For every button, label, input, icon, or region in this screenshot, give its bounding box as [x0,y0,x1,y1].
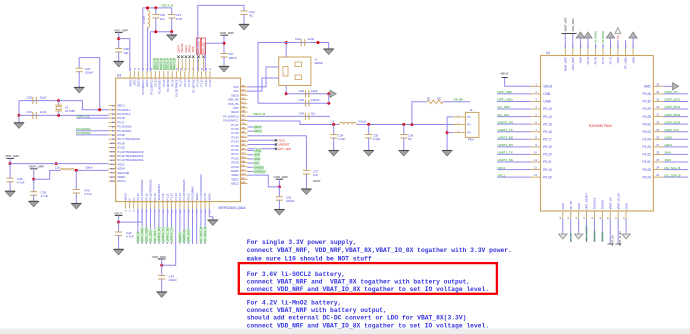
svg-text:NRF_RST: NRF_RST [186,228,190,242]
svg-text:26: 26 [656,151,659,155]
svg-text:13: 13 [534,173,537,177]
svg-text:VDD_NRF: VDD_NRF [274,175,289,179]
svg-text:VBAT_IO_8X: VBAT_IO_8X [619,231,622,246]
svg-text:NC: NC [249,14,254,18]
svg-text:VBUS: VBUS [114,211,122,215]
svg-text:GND: GND [624,203,628,209]
svg-text:19: 19 [600,216,602,219]
svg-text:NRF_RESET: NRF_RESET [585,225,589,241]
svg-text:6: 6 [535,120,537,124]
svg-text:P2: P2 [467,123,471,127]
svg-text:31: 31 [656,113,659,117]
svg-text:QSPI_DIO3: QSPI_DIO3 [665,120,681,124]
svg-text:PEX: PEX [468,138,474,142]
svg-text:P0.04: P0.04 [586,57,590,65]
svg-text:J3: J3 [134,209,136,212]
svg-text:I2C_SCL: I2C_SCL [498,113,511,117]
svg-text:DEC4_B: DEC4_B [162,4,174,8]
svg-text:RF_BP: RF_BP [454,97,464,101]
svg-text:P1.24: P1.24 [642,145,651,149]
svg-text:27: 27 [656,143,659,147]
svg-text:VBAT_IO_8X: VBAT_IO_8X [616,193,620,210]
svg-text:VBUS: VBUS [543,85,552,89]
svg-text:32.768K: 32.768K [65,109,75,113]
svg-text:1.0pF: 1.0pF [373,137,381,141]
svg-text:VBAT_NRF: VBAT_NRF [29,165,45,169]
svg-text:NFC2: NFC2 [254,129,262,133]
svg-text:P0.11: P0.11 [601,57,605,65]
svg-text:5: 5 [535,113,537,117]
svg-text:NRF52840-QIAA: NRF52840-QIAA [219,206,247,210]
svg-text:P3: P3 [467,131,471,135]
svg-text:SW1: SW1 [665,158,672,162]
svg-text:GND: GND [577,203,581,209]
svg-text:NC: NC [311,111,316,115]
svg-text:P0.04(NE): P0.04(NE) [594,31,598,43]
svg-text:SWDIO: SWDIO [600,232,604,241]
svg-text:USB+: USB+ [543,100,552,104]
svg-text:15: 15 [568,216,570,219]
svg-text:DEC3B: DEC3B [180,43,184,52]
svg-text:17: 17 [584,216,586,219]
svg-text:GND: GND [561,203,565,209]
svg-text:RF_1aRa: RF_1aRa [624,57,628,69]
svg-text:P0.10: P0.10 [543,168,552,172]
svg-text:VDD_NRF: VDD_NRF [571,18,575,32]
svg-text:33: 33 [656,98,659,102]
svg-text:connect VDD_NRF and VBAT_IO_8X: connect VDD_NRF and VBAT_IO_8X togather … [247,286,489,293]
svg-text:For single 3.3V power supply,: For single 3.3V power supply, [247,239,357,246]
svg-text:100nF: 100nF [228,56,237,60]
svg-text:1.0pF: 1.0pF [338,137,346,141]
svg-text:7: 7 [535,128,537,132]
svg-text:25: 25 [656,158,659,162]
svg-text:4.7uF: 4.7uF [41,194,49,198]
svg-text:DEC4_B: DEC4_B [254,112,266,116]
svg-text:X2: X2 [65,106,69,110]
svg-text:12pF: 12pF [308,37,315,41]
svg-text:Y1: Y1 [315,58,319,62]
svg-text:100nF: 100nF [286,199,295,203]
svg-text:31: 31 [130,67,132,70]
svg-text:QSPI_DIO1: QSPI_DIO1 [665,105,681,109]
svg-text:P0.14: P0.14 [543,115,552,119]
svg-text:P0.17: P0.17 [543,137,552,141]
svg-text:C31: C31 [26,110,32,114]
svg-text:P0.16: P0.16 [543,130,552,134]
svg-text:NC: NC [408,137,413,141]
svg-text:100nF: 100nF [169,278,178,282]
svg-text:I2C_SDA_B: I2C_SDA_B [665,173,681,177]
svg-text:8: 8 [535,135,537,139]
svg-text:SWDCLK: SWDCLK [593,230,597,242]
svg-text:QSPI_DIO0: QSPI_DIO0 [665,98,681,102]
svg-text:J2: J2 [470,108,473,112]
svg-text:22pF: 22pF [40,95,47,99]
svg-text:RF_BT: RF_BT [569,200,573,209]
svg-text:UART2_DE: UART2_DE [498,135,514,139]
svg-text:VDD_NRF: VDD_NRF [152,255,167,259]
svg-text:C26: C26 [295,37,301,41]
svg-text:1uF: 1uF [160,17,165,21]
svg-text:DPL_SEL: DPL_SEL [202,41,206,53]
svg-text:DPL_CLK: DPL_CLK [197,41,201,53]
svg-text:C34: C34 [298,111,304,115]
svg-text:P0.25: P0.25 [642,168,651,172]
svg-text:4.7uF: 4.7uF [17,181,25,185]
svg-text:DCCH: DCCH [117,179,125,183]
svg-text:connect VBAT_NRF and VBAT_8X: connect VBAT_NRF and VBAT_8X togather wi… [247,279,471,286]
svg-text:4: 4 [535,105,537,109]
svg-text:P0.21: P0.21 [543,160,552,164]
svg-text:ANT_SMI: ANT_SMI [278,147,291,151]
svg-text:P1.10: P1.10 [208,79,212,87]
svg-text:P0.15: P0.15 [543,122,552,126]
svg-text:RAK4630 PA0d: RAK4630 PA0d [589,124,612,128]
svg-text:9: 9 [535,143,537,147]
svg-text:should add external DC-DC conv: should add external DC-DC convert or LDO… [247,315,467,322]
svg-text:VDD_NRF: VDD_NRF [220,31,235,35]
svg-text:VBAT_NRF: VBAT_NRF [564,57,568,72]
svg-text:22: 22 [623,216,625,219]
svg-text:P0.28: P0.28 [642,115,651,119]
svg-text:30: 30 [656,120,659,124]
svg-text:P0.05(NE): P0.05(NE) [601,31,605,43]
svg-text:L5 1uH: L5 1uH [143,16,146,24]
svg-text:P1.02: P1.02 [642,153,651,157]
svg-text:L10: L10 [55,166,60,170]
svg-text:GND: GND [616,57,620,63]
svg-text:SWDCLK: SWDCLK [254,170,266,174]
svg-text:QSPI_CS: QSPI_CS [665,90,678,94]
svg-text:L3: L3 [331,120,335,124]
svg-text:22pF: 22pF [40,110,47,114]
svg-text:P0.05: P0.05 [594,57,598,65]
svg-text:VBUS: VBUS [500,72,508,76]
svg-text:49: 49 [206,67,208,70]
svg-text:connect VBAT_NRF, VDD_NRF,VBAT: connect VBAT_NRF, VDD_NRF,VBAT_8X,VBAT_I… [247,247,512,254]
svg-text:P0.03: P0.03 [642,130,651,134]
svg-text:29: 29 [656,128,659,132]
svg-text:10: 10 [534,151,537,155]
svg-text:P0.26: P0.26 [642,92,651,96]
svg-text:2: 2 [535,90,537,94]
svg-text:23: 23 [656,173,659,177]
svg-text:UART1_TX: UART1_TX [170,227,174,242]
svg-text:DCC2: DCC2 [184,45,188,53]
svg-text:42: 42 [176,67,178,70]
svg-text:VBAT_8X: VBAT_8X [608,197,612,209]
svg-text:SWDCLK: SWDCLK [593,197,597,209]
svg-text:VBAT_8X: VBAT_8X [611,235,614,246]
svg-text:NRF_USB+: NRF_USB+ [498,98,514,102]
svg-text:TDI0: TDI0 [191,46,195,52]
svg-text:33: 33 [139,67,141,70]
svg-text:1nF: 1nF [313,173,318,177]
svg-text:32: 32 [134,67,136,70]
svg-text:P1.01: P1.01 [642,160,651,164]
svg-text:P0.31: P0.31 [609,57,613,65]
svg-text:4.7uF: 4.7uF [84,192,92,196]
svg-text:18: 18 [592,216,594,219]
svg-text:P0.19: P0.19 [543,145,552,149]
svg-text:DEC2: DEC2 [231,182,239,186]
svg-text:QSPI_DIO2: QSPI_DIO2 [665,113,681,117]
svg-text:14: 14 [560,216,562,219]
svg-text:NC: NC [437,97,442,101]
svg-text:C29: C29 [298,89,304,93]
svg-text:100pF: 100pF [311,98,320,102]
svg-text:GND: GND [631,57,635,63]
svg-text:3.9nH: 3.9nH [358,120,366,124]
svg-text:RF_BT: RF_BT [569,233,573,242]
svg-text:34: 34 [656,90,659,94]
svg-text:J1: J1 [125,209,127,212]
svg-text:21: 21 [616,216,618,219]
svg-text:DEC5: DEC5 [176,45,180,53]
svg-text:UART1_TX: UART1_TX [498,151,513,155]
svg-text:NRF_USB-: NRF_USB- [498,90,513,94]
svg-text:U3: U3 [117,74,121,78]
svg-text:12pF: 12pF [311,89,318,93]
svg-text:SWDIO: SWDIO [601,199,605,209]
svg-text:SWO2: SWO2 [188,44,192,52]
svg-text:1uF: 1uF [123,51,128,55]
svg-text:UART1_DE: UART1_DE [498,158,514,162]
svg-text:U4: U4 [546,51,550,55]
svg-text:C33: C33 [298,98,304,102]
svg-text:connect VBAT_NRF with battery: connect VBAT_NRF with battery output, [247,307,387,314]
svg-text:UART2_RX: UART2_RX [498,120,514,124]
svg-text:11: 11 [534,158,537,162]
svg-text:P0.13: P0.13 [543,107,552,111]
svg-text:P1.04: P1.04 [642,137,651,141]
svg-text:R21RF: R21RF [313,180,321,183]
svg-text:VDD_NRF: VDD_NRF [571,57,575,71]
svg-text:12: 12 [534,166,537,170]
svg-text:24: 24 [656,166,659,170]
svg-text:I2C_SCL_B: I2C_SCL_B [665,166,681,170]
svg-text:QSPI_CLK: QSPI_CLK [665,128,680,132]
svg-text:100nF: 100nF [85,71,94,75]
svg-text:J2: J2 [130,209,132,212]
svg-text:UART2_TX: UART2_TX [498,128,513,132]
svg-text:20: 20 [608,216,610,219]
svg-text:For 4.2V li-MnO2 battery,: For 4.2V li-MnO2 battery, [247,300,342,307]
svg-text:10uH: 10uH [85,166,92,170]
svg-text:DEC7_B: DEC7_B [172,58,176,70]
svg-text:32: 32 [656,105,659,109]
svg-text:VDD3: VDD3 [207,193,211,201]
svg-text:NFC1: NFC1 [498,173,506,177]
svg-text:GND: GND [579,57,583,63]
svg-text:R1: R1 [427,97,431,101]
svg-text:make sure L10 should be NOT st: make sure L10 should be NOT stuff [247,255,372,262]
svg-text:P0.24: P0.24 [642,175,651,179]
svg-text:35: 35 [656,82,659,86]
svg-text:DC_SDA_B: DC_SDA_B [203,227,207,243]
svg-text:USB-: USB- [543,92,551,96]
svg-text:I2C_SDA: I2C_SDA [498,105,511,109]
svg-text:P0.02: P0.02 [642,122,651,126]
svg-text:VDD_NRF: VDD_NRF [114,28,129,32]
svg-text:NRF_RESET: NRF_RESET [585,193,589,210]
svg-text:C30: C30 [26,95,32,99]
svg-text:P1: P1 [467,115,471,119]
svg-text:47nF: 47nF [176,17,183,21]
svg-text:3: 3 [535,98,537,102]
svg-text:LED4: LED4 [665,143,673,147]
svg-text:4.7uF: 4.7uF [126,234,134,238]
svg-text:NFC2: NFC2 [498,166,506,170]
svg-text:UART1_RX: UART1_RX [498,143,514,147]
svg-text:VBAT_NRF: VBAT_NRF [563,17,567,32]
svg-text:50: 50 [210,67,212,70]
svg-text:P0.30: P0.30 [642,100,651,104]
svg-text:For 3.6V li-SOCL2 battery,: For 3.6V li-SOCL2 battery, [247,271,346,278]
svg-text:16: 16 [576,216,578,219]
svg-text:connect VDD_NRF and VBAT_IO_8X: connect VDD_NRF and VBAT_IO_8X togather … [247,322,489,329]
svg-text:32MHz: 32MHz [315,61,324,65]
svg-text:P0.09: P0.09 [543,175,552,179]
svg-text:P0.20: P0.20 [543,153,552,157]
svg-text:1: 1 [535,82,537,86]
svg-text:28: 28 [656,135,659,139]
svg-text:LED2: LED2 [665,135,673,139]
svg-text:GND: GND [644,85,652,89]
svg-text:SW0: SW0 [665,151,672,155]
svg-text:VDD_NRF: VDD_NRF [5,154,20,158]
svg-text:P0.29: P0.29 [642,107,651,111]
